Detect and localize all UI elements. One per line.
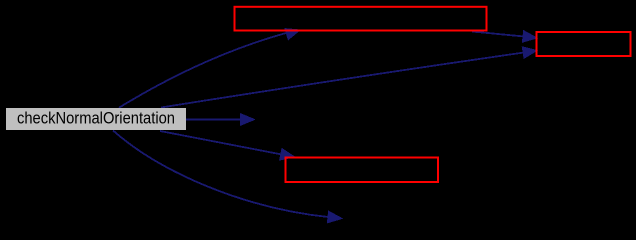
node middle box	[286, 158, 439, 183]
node right box	[537, 32, 631, 56]
edge top box to right box	[472, 31, 537, 43]
node top box	[235, 7, 487, 31]
edge checkNormalOrientation to right box	[161, 47, 537, 108]
node checkNormalOrientation	[6, 108, 186, 130]
svg-text:checkNormalOrientation: checkNormalOrientation	[17, 110, 175, 128]
edge checkNormalOrientation short arrow	[186, 114, 255, 126]
edge checkNormalOrientation bottom curve	[113, 131, 342, 223]
edge checkNormalOrientation to middle box	[160, 131, 295, 160]
edge checkNormalOrientation to top box	[119, 29, 300, 108]
